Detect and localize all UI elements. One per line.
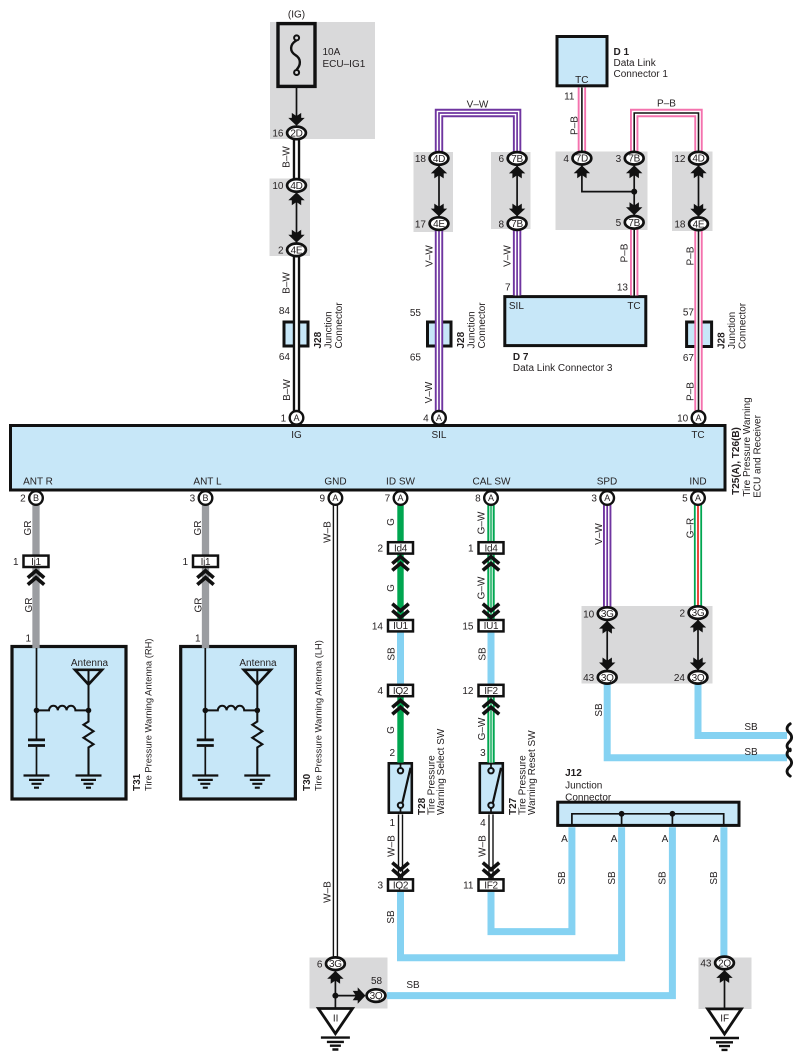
connector 3(IQ2) xyxy=(388,879,413,890)
wire G-W IF2 to T27 pin 3 xyxy=(487,696,494,763)
connector 18(4E) xyxy=(689,218,708,231)
svg-text:3G: 3G xyxy=(329,959,342,970)
svg-text:18: 18 xyxy=(415,154,427,165)
svg-text:67: 67 xyxy=(683,353,695,364)
svg-text:SB: SB xyxy=(607,871,618,885)
svg-text:3G: 3G xyxy=(601,609,614,620)
svg-text:4E: 4E xyxy=(693,219,705,230)
ECU pin 3(A) SPD xyxy=(600,491,614,505)
svg-text:IND: IND xyxy=(689,476,706,487)
svg-text:A: A xyxy=(488,493,494,503)
svg-text:3: 3 xyxy=(616,154,622,165)
svg-text:58: 58 xyxy=(371,976,383,987)
fuse element symbol xyxy=(291,41,300,70)
arrow into 43(2Q) xyxy=(716,970,732,983)
svg-text:Ij1: Ij1 xyxy=(31,557,41,568)
wire junction to 3Q(58) xyxy=(335,995,357,997)
chevron into 3(IQ2) xyxy=(392,863,408,877)
arrow into 6(7B) xyxy=(509,166,525,179)
wire SB 3Q(58) to J12 xyxy=(387,827,672,995)
chevron into 15(IU1) xyxy=(483,604,499,618)
T28 switch contacts and blade xyxy=(400,764,402,812)
continuation squiggle SB upper xyxy=(787,724,792,751)
svg-text:7B: 7B xyxy=(628,218,640,229)
shaded area 7D-7B connector cluster xyxy=(556,152,648,231)
svg-text:A: A xyxy=(332,493,338,503)
svg-text:P–B: P–B xyxy=(620,243,631,262)
ECU pin 10(A) TC xyxy=(692,411,706,425)
svg-text:SB: SB xyxy=(594,703,605,717)
connector 16(2D) xyxy=(287,127,306,140)
wire between 12(4D) and 18(4E) xyxy=(698,165,700,216)
connector 15(IU1) xyxy=(479,620,504,631)
svg-text:18: 18 xyxy=(674,220,686,231)
wire 6(3G) to ground II xyxy=(334,971,336,1009)
svg-text:CAL SW: CAL SW xyxy=(473,476,512,487)
connector 3(7B) xyxy=(625,152,644,165)
svg-text:6: 6 xyxy=(317,959,323,970)
arrow into 18(4E) xyxy=(690,204,706,217)
T31 node right xyxy=(86,708,92,714)
svg-text:Connector 1: Connector 1 xyxy=(614,69,669,80)
wire between 10(3G) and 43(3Q) xyxy=(606,621,608,671)
svg-text:3G: 3G xyxy=(692,608,705,619)
T30 ground left xyxy=(192,776,218,788)
svg-text:4D: 4D xyxy=(290,181,302,192)
svg-text:A: A xyxy=(293,413,299,423)
wire P-B 18(4E) to J28 to ECU pin TC xyxy=(694,231,702,411)
wire between 4D and 4E xyxy=(296,192,298,242)
svg-text:P–B: P–B xyxy=(657,99,676,110)
svg-text:Tire Pressure Warning: Tire Pressure Warning xyxy=(742,397,753,496)
connector 10(4D) xyxy=(287,179,306,192)
svg-text:ID SW: ID SW xyxy=(386,476,415,487)
svg-text:Id4: Id4 xyxy=(484,543,498,554)
wire B-W 2D to 4D xyxy=(293,140,300,179)
svg-text:2: 2 xyxy=(679,608,685,619)
T30 internal wire from pin 1 xyxy=(204,648,206,710)
svg-text:ANT L: ANT L xyxy=(193,476,222,487)
shaded area 6(7B)-8(7B) connector pair xyxy=(491,152,531,229)
svg-text:4: 4 xyxy=(480,818,486,829)
svg-text:P–B: P–B xyxy=(686,382,697,401)
svg-text:SIL: SIL xyxy=(431,430,446,441)
svg-text:Warning Select SW: Warning Select SW xyxy=(436,728,447,815)
svg-text:3Q: 3Q xyxy=(370,991,383,1002)
wire P-B D1 TC to 4(7D) xyxy=(578,88,586,152)
chevron into 14(IU1) xyxy=(392,604,408,618)
svg-text:IU1: IU1 xyxy=(393,621,408,632)
svg-text:3: 3 xyxy=(190,494,196,505)
svg-text:1: 1 xyxy=(13,557,19,568)
chevron into 2(Id4) xyxy=(392,557,408,571)
connector 12(4D) xyxy=(689,152,708,165)
svg-text:2D: 2D xyxy=(290,128,302,139)
shaded area ground IF connector xyxy=(699,958,752,1010)
chevron into Ij1 ANT R xyxy=(28,571,44,585)
antenna T31 box Tire Pressure Warning Antenna (RH) xyxy=(12,647,126,800)
svg-text:SB: SB xyxy=(744,722,758,733)
T30 node left xyxy=(203,708,209,714)
svg-text:J28: J28 xyxy=(717,332,728,349)
wire between 18(4D) and 17(4E) xyxy=(438,166,440,217)
svg-text:SIL: SIL xyxy=(509,301,524,312)
wire G IQ2 to T28 pin 2 xyxy=(397,696,403,763)
svg-text:1: 1 xyxy=(25,634,31,645)
arrow into 4(7D) xyxy=(574,165,590,178)
svg-text:4: 4 xyxy=(563,154,569,165)
svg-text:V–W: V–W xyxy=(467,100,489,111)
connector D1 Data Link Connector 1 box xyxy=(557,37,607,86)
svg-text:IQ2: IQ2 xyxy=(393,881,409,892)
ECU pin 4(A) SIL xyxy=(432,411,446,425)
svg-text:14: 14 xyxy=(372,621,384,632)
svg-text:B: B xyxy=(202,493,208,503)
svg-text:ANT R: ANT R xyxy=(23,476,53,487)
T31 ground left xyxy=(24,776,50,788)
svg-text:TC: TC xyxy=(691,430,704,441)
svg-text:G–W: G–W xyxy=(477,511,488,534)
svg-text:10: 10 xyxy=(272,181,284,192)
svg-text:9: 9 xyxy=(320,494,326,505)
wire SB IU1 to IQ2 xyxy=(397,632,404,686)
connector 6(3G) xyxy=(326,957,345,970)
connector 1(Ij1) ANT L xyxy=(193,556,218,567)
T31 ground right xyxy=(76,776,102,788)
ECU pin 2(B) ANT R xyxy=(29,491,43,505)
svg-text:T31: T31 xyxy=(132,773,143,791)
chevron into 11(IF2) xyxy=(483,863,499,877)
continuation squiggle SB lower xyxy=(787,749,792,776)
ECU pin 3(B) ANT L xyxy=(199,491,213,505)
svg-text:TC: TC xyxy=(575,75,588,86)
shaded area 18(4D)-17(4E) connector pair xyxy=(414,152,454,232)
T30 antenna symbol xyxy=(244,670,271,685)
svg-text:ECU–IG1: ECU–IG1 xyxy=(323,59,366,70)
svg-text:D 1: D 1 xyxy=(614,47,630,58)
ground IF triangle xyxy=(708,1009,742,1034)
shaded area 4D-4E connector pair (B-W) xyxy=(270,179,311,257)
svg-text:GR: GR xyxy=(23,521,34,536)
arrow into 4E xyxy=(288,230,304,243)
svg-text:A: A xyxy=(561,834,568,845)
J12 internal bus bar xyxy=(572,814,724,825)
svg-text:SB: SB xyxy=(386,910,397,924)
svg-text:64: 64 xyxy=(279,352,291,363)
svg-text:10: 10 xyxy=(583,609,595,620)
svg-text:B–W: B–W xyxy=(282,379,293,401)
wire fuse to 2D xyxy=(296,86,298,118)
wire G-W CAL SW to Id4 xyxy=(487,505,494,543)
svg-text:7B: 7B xyxy=(511,219,523,230)
svg-text:3Q: 3Q xyxy=(601,673,614,684)
svg-text:4: 4 xyxy=(377,686,383,697)
svg-text:A: A xyxy=(436,413,442,423)
svg-text:1: 1 xyxy=(281,414,287,425)
svg-text:SB: SB xyxy=(744,747,758,758)
svg-text:IG: IG xyxy=(291,430,302,441)
wire 3(7B) to 5(7B) xyxy=(633,165,635,215)
svg-text:A: A xyxy=(662,834,669,845)
svg-text:SB: SB xyxy=(478,647,489,661)
ground II hatch xyxy=(321,1038,350,1050)
connector 2(Id4) xyxy=(388,542,413,553)
svg-text:G–R: G–R xyxy=(686,518,697,539)
svg-text:11: 11 xyxy=(564,92,575,103)
T30 resistor xyxy=(252,710,262,775)
svg-text:IU1: IU1 xyxy=(484,621,499,632)
wire W-B T27 pin 4 to IF2 xyxy=(488,814,493,879)
svg-text:43: 43 xyxy=(583,673,595,684)
connector 2(3G) xyxy=(689,606,708,619)
svg-text:2: 2 xyxy=(20,494,26,505)
svg-text:24: 24 xyxy=(674,673,686,684)
ECU pin 1(A) IG xyxy=(290,411,304,425)
svg-text:Antenna: Antenna xyxy=(71,658,109,669)
svg-text:IF: IF xyxy=(720,1013,729,1024)
connector 17(4E) xyxy=(430,217,449,230)
svg-text:2Q: 2Q xyxy=(718,958,731,969)
svg-text:Data Link Connector 3: Data Link Connector 3 xyxy=(513,363,613,374)
arrow into 24(3Q) xyxy=(690,658,706,671)
arrow into 10(3G) xyxy=(599,621,615,634)
svg-text:10: 10 xyxy=(677,414,689,425)
svg-text:SB: SB xyxy=(406,980,420,991)
wire SB IF2 to J12 xyxy=(491,827,572,931)
connector 12(IF2) xyxy=(479,685,504,696)
svg-text:Connector: Connector xyxy=(477,302,488,349)
svg-text:Junction: Junction xyxy=(324,311,335,348)
svg-text:4D: 4D xyxy=(433,154,445,165)
svg-text:2: 2 xyxy=(389,748,395,759)
svg-text:V–W: V–W xyxy=(424,381,435,403)
svg-text:V–W: V–W xyxy=(425,245,436,267)
svg-text:13: 13 xyxy=(617,283,629,294)
svg-text:7B: 7B xyxy=(511,154,523,165)
svg-text:J12: J12 xyxy=(565,768,582,779)
arrow into 6(3G) xyxy=(327,971,343,984)
svg-text:1: 1 xyxy=(182,557,188,568)
ECU pin 7(A) ID SW xyxy=(394,491,408,505)
svg-text:P–B: P–B xyxy=(570,116,581,135)
wire V-W SPD to 10(3G) xyxy=(603,505,611,607)
shaded area fuse block xyxy=(270,22,375,139)
wire V-W 8(7B) to D7 SIL xyxy=(513,230,521,295)
connector 11(IF2) xyxy=(479,879,504,890)
svg-text:16: 16 xyxy=(272,129,284,140)
svg-text:3: 3 xyxy=(591,494,597,505)
svg-text:Ij1: Ij1 xyxy=(201,557,211,568)
wire 4(7D) to junction xyxy=(582,165,634,191)
svg-text:G–W: G–W xyxy=(477,576,488,599)
wire B-W 4E to J28 to ECU pin 1 xyxy=(293,257,300,412)
svg-text:10A: 10A xyxy=(323,47,341,58)
svg-text:SB: SB xyxy=(709,871,720,885)
svg-text:6: 6 xyxy=(499,154,505,165)
ECU pin 9(A) GND xyxy=(329,491,343,505)
wire between 2(3G) and 24(3Q) xyxy=(697,620,699,671)
svg-text:ECU and Receiver: ECU and Receiver xyxy=(753,414,764,497)
T30 ground right xyxy=(244,776,270,788)
J12 bus junction dot 1 xyxy=(619,811,625,817)
svg-text:Tire Pressure Warning Antenna: Tire Pressure Warning Antenna (LH) xyxy=(313,640,324,791)
svg-text:3: 3 xyxy=(377,881,383,892)
svg-text:Id4: Id4 xyxy=(394,543,408,554)
svg-text:3Q: 3Q xyxy=(692,673,705,684)
arrow into 2D xyxy=(288,113,304,126)
svg-text:43: 43 xyxy=(700,959,712,970)
svg-text:2: 2 xyxy=(377,544,383,555)
wire GR ANT R to Ij1 xyxy=(32,505,39,555)
svg-text:3: 3 xyxy=(480,748,486,759)
arrow into 8(7B) xyxy=(509,204,525,217)
svg-text:II: II xyxy=(333,1013,339,1024)
junction connector J12 box xyxy=(558,802,739,825)
wire W-B T28 pin 1 to IQ2 xyxy=(398,814,403,879)
T27 switch contacts and blade xyxy=(490,764,492,812)
wire GR Ij1 to T30 pin 1 xyxy=(202,568,209,649)
svg-text:GR: GR xyxy=(193,521,204,536)
svg-text:A: A xyxy=(611,834,618,845)
svg-text:W–B: W–B xyxy=(387,835,398,857)
wire G Id4 to IU1 xyxy=(397,553,403,620)
svg-text:55: 55 xyxy=(410,308,422,319)
wire GR ANT L to Ij1 xyxy=(202,505,209,555)
ECU pin 8(A) CAL SW xyxy=(484,491,498,505)
svg-text:J28: J28 xyxy=(313,331,324,348)
svg-text:IF2: IF2 xyxy=(484,686,498,697)
junction connector J28 box (V-W) xyxy=(428,322,452,346)
wire P-B 5(7B) to D7 TC xyxy=(630,229,638,296)
svg-text:65: 65 xyxy=(410,353,422,364)
svg-text:A: A xyxy=(695,493,701,503)
wire G-W Id4 to IU1 xyxy=(487,553,494,620)
svg-text:A: A xyxy=(604,493,610,503)
svg-text:SPD: SPD xyxy=(597,476,618,487)
svg-text:W–B: W–B xyxy=(323,521,334,543)
svg-text:TC: TC xyxy=(627,301,640,312)
svg-text:5: 5 xyxy=(616,218,622,229)
connector 43(2Q) xyxy=(715,957,734,970)
connector D7 Data Link Connector 3 box xyxy=(505,297,646,346)
ECU box T25/T26 Tire Pressure Warning ECU and Receiver xyxy=(11,426,726,491)
T30 capacitor xyxy=(204,710,206,775)
arrow into 2(3G) xyxy=(690,620,706,633)
svg-text:G: G xyxy=(386,518,397,526)
T31 internal wire from pin 1 xyxy=(36,648,38,710)
svg-text:B: B xyxy=(33,493,39,503)
svg-text:SB: SB xyxy=(387,647,398,661)
svg-text:GR: GR xyxy=(24,598,35,613)
svg-text:G: G xyxy=(386,584,397,592)
svg-text:G: G xyxy=(386,726,397,734)
T31 inductor coil xyxy=(37,706,89,711)
wire between 6(7B) and 8(7B) xyxy=(516,166,518,217)
connector 24(3Q) xyxy=(689,671,708,684)
T30 inductor coil xyxy=(205,706,257,711)
junction connector J28 box (B-W) xyxy=(284,322,308,346)
svg-text:T30: T30 xyxy=(302,773,313,791)
chevron into Ij1 ANT L xyxy=(197,571,213,585)
connector 5(7B) xyxy=(625,216,644,229)
wire SB IQ2 to J12 xyxy=(401,827,622,957)
svg-text:(IG): (IG) xyxy=(288,9,305,20)
svg-text:4E: 4E xyxy=(433,219,445,230)
svg-text:D 7: D 7 xyxy=(513,352,529,363)
svg-text:T25(A), T26(B): T25(A), T26(B) xyxy=(731,427,742,495)
svg-text:11: 11 xyxy=(463,881,474,892)
svg-text:V–W: V–W xyxy=(594,523,605,545)
junction dot 7B cluster xyxy=(631,189,637,195)
svg-text:A: A xyxy=(713,834,720,845)
ground IF hatch xyxy=(710,1038,739,1050)
svg-text:1: 1 xyxy=(389,818,395,829)
switch T27 Tire Pressure Warning Reset SW box xyxy=(480,763,503,812)
connector 10(3G) xyxy=(598,607,617,620)
svg-text:P–B: P–B xyxy=(686,246,697,265)
svg-text:12: 12 xyxy=(462,686,474,697)
T31 antenna symbol xyxy=(75,670,102,685)
svg-text:GND: GND xyxy=(324,476,346,487)
J12 bus junction dot 2 xyxy=(670,811,676,817)
arrow into 12(4D) xyxy=(690,165,706,178)
chevron into 4(IQ2) xyxy=(392,700,408,714)
wire G-R IND to 2(3G) xyxy=(694,505,702,606)
svg-text:57: 57 xyxy=(683,308,695,319)
svg-text:SB: SB xyxy=(658,871,669,885)
svg-text:4E: 4E xyxy=(291,245,303,256)
svg-text:4: 4 xyxy=(423,414,429,425)
svg-text:4D: 4D xyxy=(692,154,704,165)
connector 43(3Q) xyxy=(598,671,617,684)
svg-text:J28: J28 xyxy=(456,331,467,348)
junction connector J28 box (P-B) xyxy=(687,322,712,347)
T31 resistor xyxy=(84,710,94,775)
connector 4(IQ2) xyxy=(388,685,413,696)
svg-text:8: 8 xyxy=(475,494,481,505)
svg-text:5: 5 xyxy=(682,494,688,505)
arrow into 43(3Q) xyxy=(599,658,615,671)
ECU pin 5(A) IND xyxy=(691,491,705,505)
arrow into 17(4E) xyxy=(431,204,447,217)
wire G ID SW to Id4 xyxy=(397,505,403,543)
svg-text:Tire Pressure Warning Antenna: Tire Pressure Warning Antenna (RH) xyxy=(143,639,154,791)
svg-text:GR: GR xyxy=(194,598,205,613)
arrow into 3(7B) xyxy=(626,165,642,178)
T31 capacitor xyxy=(36,710,38,775)
connector 1(Ij1) ANT R xyxy=(24,556,49,567)
svg-text:W–B: W–B xyxy=(478,835,489,857)
svg-text:Antenna: Antenna xyxy=(239,658,277,669)
arrow into 4D xyxy=(288,192,304,205)
chevron into 12(IF2) xyxy=(483,700,499,714)
svg-text:7: 7 xyxy=(505,283,511,294)
svg-text:7: 7 xyxy=(385,494,391,505)
wire SB 24(3Q) to right edge xyxy=(698,684,787,735)
svg-text:1: 1 xyxy=(195,634,201,645)
antenna T30 box Tire Pressure Warning Antenna (LH) xyxy=(181,647,296,800)
svg-text:A: A xyxy=(397,493,403,503)
svg-text:B–W: B–W xyxy=(282,146,293,168)
connector 4(7D) xyxy=(573,152,592,165)
connector 18(4D) xyxy=(430,152,449,165)
connector 6(7B) xyxy=(508,152,527,165)
svg-text:IF2: IF2 xyxy=(484,881,498,892)
wire SB 43(3Q) to right edge xyxy=(607,684,787,758)
svg-text:Connector: Connector xyxy=(738,302,749,349)
svg-text:2: 2 xyxy=(278,246,284,257)
T30 node right xyxy=(254,708,260,714)
